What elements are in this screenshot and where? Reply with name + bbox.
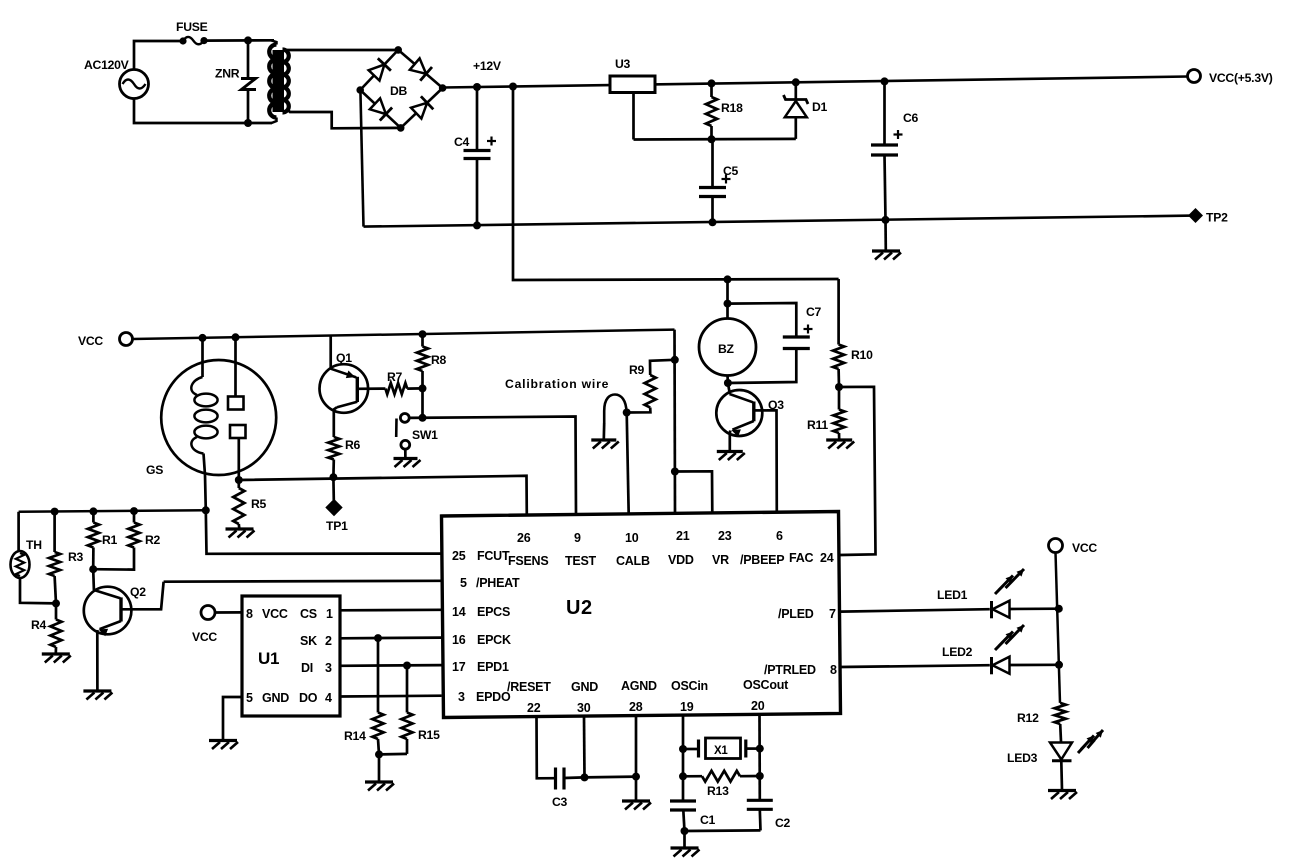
ground [591, 423, 619, 449]
wire [164, 579, 442, 583]
wire [215, 611, 242, 614]
svg-text:EPCS: EPCS [477, 605, 510, 619]
electrode (GS) [228, 333, 246, 484]
wire [287, 109, 401, 128]
wire [767, 410, 777, 515]
pin AGND 28 (U2) [621, 679, 657, 714]
test point TP2 [1188, 208, 1228, 225]
resistor R5 [233, 480, 266, 529]
svg-text:C4: C4 [454, 135, 470, 149]
wire [537, 717, 555, 779]
ground [622, 801, 651, 810]
svg-text:8: 8 [246, 607, 253, 621]
IC U2 [442, 512, 841, 718]
pin 3 EPDO (U2) [458, 690, 511, 704]
transistor Q1 [320, 336, 386, 437]
ground [209, 741, 238, 750]
pin DO 4 (U1) [299, 691, 332, 705]
svg-text:DI: DI [301, 661, 313, 675]
wire [223, 697, 242, 740]
svg-text:FSENS: FSENS [508, 554, 548, 568]
capacitor C1 [670, 801, 716, 835]
svg-text:3: 3 [325, 661, 332, 675]
svg-text:C2: C2 [775, 816, 791, 830]
wire [841, 609, 990, 611]
svg-text:GS: GS [146, 463, 163, 477]
svg-text:R5: R5 [251, 497, 267, 511]
resistor R14 [344, 638, 384, 758]
resistor R3 [49, 508, 84, 608]
bridge rectifier DB [356, 46, 446, 132]
wire [285, 49, 398, 52]
wire [239, 476, 527, 516]
wire [202, 454, 210, 515]
svg-text:23: 23 [718, 529, 732, 543]
svg-text:6: 6 [776, 529, 783, 543]
wire [443, 77, 1188, 88]
pin 23 VR (U2) [712, 529, 732, 567]
thermistor TH [11, 512, 57, 604]
terminal VCC [78, 333, 133, 349]
wire [1056, 553, 1061, 703]
buzzer BZ [699, 275, 756, 387]
pin OSCout 20 (U2) [743, 678, 789, 713]
svg-text:D1: D1 [812, 100, 828, 114]
svg-text:R10: R10 [851, 348, 873, 362]
resistor R15 [379, 666, 440, 755]
wire [1010, 661, 1064, 669]
svg-text:TP2: TP2 [1206, 211, 1228, 225]
capacitor C7 [728, 303, 822, 383]
pin 6 /PBEEP (U2) [740, 529, 784, 567]
wire [1010, 605, 1063, 613]
svg-text:R2: R2 [145, 533, 161, 547]
svg-text:VCC: VCC [1072, 541, 1097, 555]
wire [340, 662, 442, 670]
ground [872, 220, 901, 260]
svg-text:+12V: +12V [473, 59, 502, 73]
svg-text:5: 5 [460, 576, 467, 590]
svg-text:VCC(+5.3V): VCC(+5.3V) [1209, 71, 1273, 85]
capacitor C3 [552, 768, 589, 810]
wire [1060, 761, 1063, 790]
svg-text:X1: X1 [714, 745, 728, 757]
wire [134, 99, 272, 124]
wire [841, 665, 990, 667]
wire [134, 41, 182, 70]
svg-text:AC120V: AC120V [84, 58, 130, 72]
transistor Q3 [716, 383, 784, 451]
varistor ZNR [215, 36, 256, 127]
svg-text:R15: R15 [418, 728, 440, 742]
wire [585, 773, 641, 781]
svg-text:EPD1: EPD1 [477, 660, 509, 674]
svg-text:22: 22 [527, 701, 541, 715]
pin OSCin 19 (U2) [671, 679, 708, 714]
terminal VCC (U1) [192, 606, 217, 645]
svg-text:C6: C6 [903, 111, 919, 125]
crystal X1 [683, 738, 760, 759]
resistor R2 [93, 507, 160, 569]
svg-text:LED2: LED2 [942, 645, 973, 659]
ground [1048, 791, 1077, 800]
wire [364, 216, 1194, 227]
IC U1 [242, 596, 340, 716]
svg-text:U1: U1 [258, 649, 279, 668]
wire [199, 334, 207, 377]
svg-text:R6: R6 [345, 438, 361, 452]
pin 5 /PHEAT (U2) [460, 576, 520, 590]
wire [634, 138, 796, 141]
svg-text:ZNR: ZNR [215, 67, 240, 81]
svg-text:3: 3 [458, 690, 465, 704]
ground [394, 459, 421, 468]
pin /PTRLED 8 (U2) [764, 663, 837, 677]
svg-text:R11: R11 [807, 418, 828, 432]
svg-text:R4: R4 [31, 618, 47, 632]
svg-text:DO: DO [299, 691, 318, 705]
voltage regulator U3 [610, 57, 655, 140]
svg-text:C5: C5 [723, 164, 739, 178]
svg-text:R1: R1 [102, 533, 118, 547]
wire [509, 83, 839, 281]
pin GND 30 (U2) [571, 680, 598, 715]
wire [635, 716, 638, 800]
svg-text:30: 30 [577, 701, 591, 715]
svg-text:8: 8 [830, 663, 837, 677]
svg-text:SW1: SW1 [412, 428, 438, 442]
LED LED3 [1007, 730, 1103, 765]
ground [83, 691, 112, 700]
zener diode D1 [784, 78, 828, 139]
wire [671, 330, 679, 516]
fuse FUSE [176, 20, 208, 45]
svg-text:FCUT: FCUT [477, 549, 510, 563]
svg-text:FAC: FAC [789, 551, 813, 565]
label +12V [473, 59, 502, 73]
svg-text:CS: CS [300, 607, 317, 621]
svg-text:EPDO: EPDO [476, 690, 511, 704]
pin 10 CALB (U2) [616, 531, 650, 568]
wire [756, 716, 764, 801]
pin /PLED 7 (U2) [778, 607, 836, 621]
svg-text:R8: R8 [431, 353, 447, 367]
svg-text:C1: C1 [700, 813, 716, 827]
resistor R13 [683, 771, 760, 798]
LED LED2 [942, 625, 1024, 674]
svg-text:14: 14 [452, 605, 466, 619]
wire [19, 510, 206, 512]
svg-text:OSCout: OSCout [743, 678, 789, 692]
svg-text:19: 19 [680, 700, 694, 714]
wire [340, 694, 442, 697]
svg-text:26: 26 [517, 531, 531, 545]
svg-text:R7: R7 [387, 370, 403, 384]
wire [627, 413, 629, 515]
svg-text:9: 9 [574, 531, 581, 545]
resistor R1 [88, 507, 118, 573]
resistor R10 [833, 279, 873, 391]
svg-text:U2: U2 [566, 597, 593, 619]
svg-text:R9: R9 [629, 363, 645, 377]
svg-text:BZ: BZ [718, 342, 735, 356]
svg-text:GND: GND [571, 680, 598, 694]
wire [679, 716, 687, 801]
wire [685, 829, 761, 832]
resistor R11 [807, 387, 845, 440]
svg-text:R3: R3 [68, 550, 84, 564]
svg-text:/PLED: /PLED [778, 607, 814, 621]
resistor R8 [417, 330, 447, 422]
svg-text:C7: C7 [806, 305, 822, 319]
pin DI 3 (U1) [301, 661, 332, 675]
svg-text:GND: GND [262, 691, 289, 705]
svg-text:VCC: VCC [78, 334, 103, 348]
capacitor C6 [871, 77, 919, 224]
LED LED1 [937, 569, 1024, 618]
ground [826, 440, 854, 449]
svg-text:/RESET: /RESET [507, 680, 551, 694]
svg-text:R13: R13 [707, 784, 729, 798]
svg-text:R14: R14 [344, 729, 366, 743]
svg-text:Q2: Q2 [130, 585, 146, 599]
pin 17 EPD1 (U2) [452, 660, 509, 674]
wire [204, 39, 274, 42]
terminal VCC (LED) [1049, 539, 1098, 556]
wire [133, 330, 675, 339]
pin 25 FCUT (U2) [452, 549, 510, 563]
svg-text:TH: TH [26, 538, 42, 552]
resistor R9 [627, 356, 679, 413]
svg-text:/PBEEP: /PBEEP [740, 553, 784, 567]
svg-text:16: 16 [452, 633, 466, 647]
svg-text:FUSE: FUSE [176, 20, 208, 34]
pin 9 TEST (U2) [565, 531, 597, 568]
svg-text:DB: DB [390, 84, 408, 98]
svg-text:17: 17 [452, 660, 466, 674]
wire [583, 717, 586, 778]
pin 5 GND (U1) [246, 691, 289, 705]
coil (GS heater) [191, 377, 217, 454]
pin 16 EPCK (U2) [452, 633, 511, 647]
svg-text:CALB: CALB [616, 554, 650, 568]
transformer T1 [269, 40, 289, 123]
svg-text:2: 2 [325, 634, 332, 648]
pin /RESET 22 (U2) [507, 680, 551, 715]
svg-text:R18: R18 [721, 101, 743, 115]
svg-text:1: 1 [326, 607, 333, 621]
svg-text:/PHEAT: /PHEAT [476, 576, 520, 590]
label Calibration wire [505, 377, 609, 391]
capacitor C4 [454, 83, 496, 229]
svg-text:VCC: VCC [192, 630, 217, 644]
transistor Q2 [84, 569, 164, 690]
wire [839, 387, 876, 555]
pin 8 VCC (U1) [246, 607, 288, 621]
ground [226, 529, 255, 538]
pin 26 FSENS (U2) [508, 531, 548, 568]
resistor R18 [706, 79, 743, 143]
wire [206, 510, 442, 554]
svg-text:TEST: TEST [565, 554, 597, 568]
resistor R12 [1017, 703, 1066, 742]
wire [409, 417, 576, 516]
terminal VCC(+5.3V) [1188, 70, 1273, 86]
svg-text:TP1: TP1 [326, 519, 348, 533]
svg-text:VCC: VCC [262, 607, 288, 621]
ground [365, 754, 394, 790]
pin FAC 24 (U2) [789, 551, 834, 565]
svg-text:VR: VR [712, 553, 729, 567]
capacitor C5 [699, 139, 739, 226]
wire [675, 471, 712, 514]
svg-text:4: 4 [325, 691, 332, 705]
wire [340, 634, 442, 642]
resistor R6 [328, 437, 360, 481]
svg-text:24: 24 [820, 551, 834, 565]
gas sensor GS [146, 360, 276, 477]
svg-text:5: 5 [246, 691, 253, 705]
svg-text:28: 28 [629, 700, 643, 714]
switch SW1 [396, 414, 438, 459]
ground [671, 831, 700, 857]
svg-text:AGND: AGND [621, 679, 657, 693]
pin CS 1 (U1) [300, 607, 333, 621]
pin 14 EPCS (U2) [452, 605, 510, 619]
ground [42, 654, 71, 663]
resistor R4 [31, 603, 62, 653]
svg-text:OSCin: OSCin [671, 679, 708, 693]
capacitor C2 [747, 800, 791, 830]
svg-text:20: 20 [751, 699, 765, 713]
wire [360, 90, 363, 227]
test point TP1 [325, 477, 348, 533]
pin 21 VDD (U2) [668, 529, 694, 567]
svg-text:Calibration wire: Calibration wire [505, 377, 609, 391]
svg-text:R12: R12 [1017, 711, 1039, 725]
svg-text:SK: SK [300, 634, 317, 648]
svg-text:VDD: VDD [668, 553, 694, 567]
svg-text:10: 10 [625, 531, 639, 545]
svg-text:EPCK: EPCK [477, 633, 511, 647]
ground [717, 452, 745, 461]
svg-text:LED3: LED3 [1007, 751, 1038, 765]
svg-text:25: 25 [452, 549, 466, 563]
svg-text:Q1: Q1 [336, 351, 352, 365]
resistor R7 [385, 370, 422, 394]
svg-text:U3: U3 [615, 57, 631, 71]
calibration wire jumper [604, 395, 631, 424]
svg-text:21: 21 [676, 529, 690, 543]
wire [340, 608, 442, 611]
svg-text:7: 7 [829, 607, 836, 621]
svg-text:C3: C3 [552, 795, 568, 809]
svg-text:LED1: LED1 [937, 588, 968, 602]
AC source AC120V [84, 58, 149, 99]
svg-text:/PTRLED: /PTRLED [764, 663, 816, 677]
pin SK 2 (U1) [300, 634, 332, 648]
